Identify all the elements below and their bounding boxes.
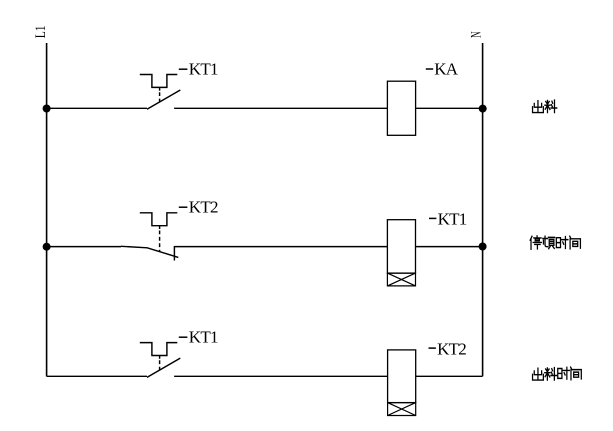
power rail L1 (left vertical bus): [46, 43, 48, 376]
label -KT2 (coil rung3): [429, 347, 436, 349]
node junction N-rung1: [479, 105, 487, 113]
label -KT1 (coil rung2): [429, 217, 436, 219]
timed contact -KT2 rung2: fixed contact bar: [173, 246, 175, 261]
coil KT1 timer element box with X: [387, 273, 415, 286]
coil KT1 (timer coil rectangle): [387, 220, 415, 273]
timed contact -KT2 (NC) rung2: delay hat symbol: [140, 213, 178, 226]
label -KA (coil rung1): [426, 68, 433, 70]
svg-text:KA: KA: [434, 60, 459, 79]
wire rung2 left segment (L1 to contact): [47, 246, 121, 248]
timed contact -KT2 rung2: moving blade polyline: [121, 246, 178, 257]
wire rung3 right segment (coil KT2 to N): [416, 375, 483, 377]
wire rung1 middle segment (contact to coil KA): [174, 107, 387, 109]
annotation 出料时间 (rung3, drawn glyphs): [533, 367, 582, 380]
node junction L1-rung2: [43, 243, 51, 251]
svg-text:L1: L1: [32, 25, 49, 38]
wire rung2 right segment (coil KT1 to N): [416, 246, 483, 248]
timed contact -KT1 (NO) rung3: delay hat symbol: [140, 343, 178, 356]
wire rung1 left segment (L1 to contact): [47, 107, 147, 109]
timed contact -KT1 rung3: dashed actuator link: [159, 360, 161, 370]
coil KT2 (timer coil rectangle): [388, 350, 416, 403]
timed contact -KT1 rung3: tick below hat: [159, 356, 161, 359]
annotation 停顿时间 (rung2, drawn glyphs): [530, 236, 580, 249]
label -KT1 (contact rung3): [179, 336, 188, 338]
svg-text:KT1: KT1: [438, 210, 467, 229]
timed contact -KT1 rung1: dashed actuator link: [159, 92, 161, 102]
timed contact -KT1 rung3: moving blade diagonal: [147, 358, 180, 377]
label -KT1 (contact rung1): [179, 68, 188, 70]
svg-text:N: N: [467, 31, 484, 38]
label -KT2 (contact rung2): [179, 206, 188, 208]
wire rung1 right segment (coil KA to N): [416, 107, 483, 109]
power rail N (right vertical bus): [482, 43, 484, 376]
svg-text:KT2: KT2: [437, 339, 466, 358]
timed contact -KT2 rung2: tick below hat: [159, 226, 161, 229]
wire rung2 middle segment (contact to coil KT1): [174, 246, 387, 248]
node junction L1-rung1: [43, 105, 51, 113]
coil KT2 timer element box with X: [388, 403, 416, 416]
wire rung3 left segment (L1 corner to contact): [47, 375, 147, 377]
timed contact -KT1 (NO on-delay) rung1: delay hat symbol: [140, 75, 178, 88]
timed contact -KT1 rung1: tick below hat: [159, 87, 161, 90]
node junction N-rung2: [479, 243, 487, 251]
timed contact -KT2 rung2: dashed actuator link: [159, 231, 161, 252]
svg-text:KT1: KT1: [189, 60, 218, 79]
timed contact -KT1 rung1: moving blade diagonal: [147, 90, 180, 109]
annotation 出料 (rung1, drawn glyphs): [533, 100, 557, 112]
coil KA (relay coil rectangle): [387, 81, 415, 135]
svg-text:KT1: KT1: [189, 328, 218, 347]
wire rung3 middle segment (contact to coil KT2): [174, 375, 388, 377]
svg-text:KT2: KT2: [189, 198, 218, 217]
